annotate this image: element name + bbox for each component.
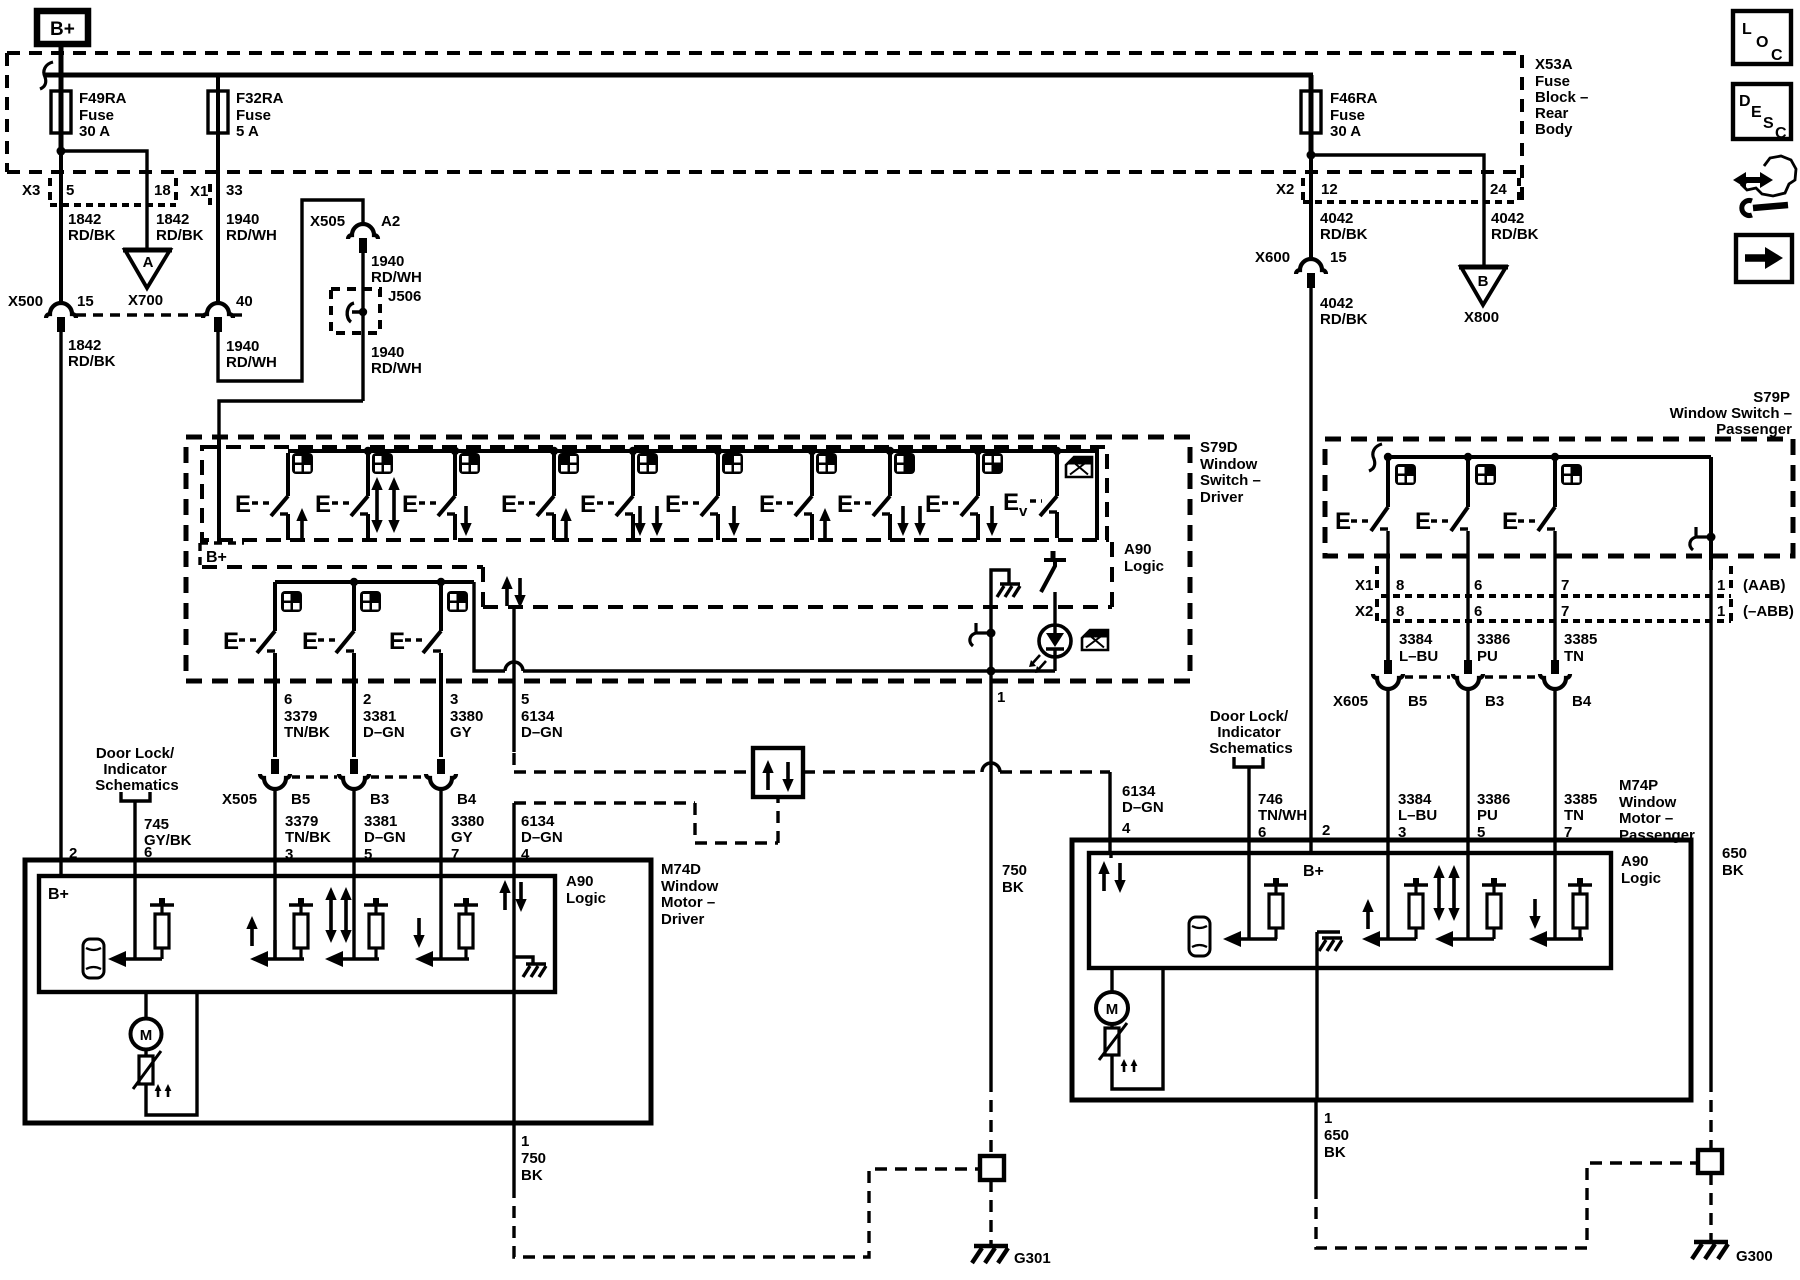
bus junction nodes passenger [1384, 453, 1559, 461]
B+ battery positive box [37, 11, 88, 44]
svg-text:7: 7 [1561, 603, 1569, 620]
wire label 4042 RD/BK pin24 [1491, 210, 1539, 243]
fuse F46RA 30A [1301, 75, 1378, 205]
lower switch cell pin2 [302, 582, 381, 757]
svg-text:O: O [1756, 34, 1768, 51]
svg-text:6: 6 [1474, 603, 1482, 620]
svg-text:M74P: M74P [1619, 777, 1658, 794]
svg-text:6: 6 [1474, 577, 1482, 594]
fuse F49RA 30A [51, 44, 127, 205]
svg-text:3386: 3386 [1477, 791, 1510, 808]
svg-text:Schematics: Schematics [95, 777, 178, 794]
wire label 3386 PU 5 [1477, 791, 1510, 841]
svg-text:650: 650 [1324, 1127, 1349, 1144]
S79D B+ terminal dashed tab [200, 543, 244, 568]
svg-text:X53A: X53A [1535, 56, 1573, 73]
ground return wire to pin1 [1315, 932, 1318, 1100]
svg-text:BK: BK [1722, 862, 1744, 879]
connector X505 B4 [426, 759, 477, 808]
connector X2 row [1276, 178, 1519, 202]
wire A2 down through J506 [361, 251, 364, 401]
svg-text:BK: BK [521, 1167, 543, 1184]
bus bar B+ inside fuse block [44, 73, 1313, 78]
connector X500 pin 15 [8, 293, 94, 332]
M74P window motor passenger outer box [1072, 840, 1691, 1100]
icon box LOC [1733, 11, 1791, 64]
svg-text:M74D: M74D [661, 861, 701, 878]
icon box forward arrow [1736, 235, 1792, 282]
M74D window motor driver outer box [25, 860, 651, 1123]
svg-text:5: 5 [521, 691, 529, 708]
M74D label [661, 861, 719, 928]
svg-text:2: 2 [363, 691, 371, 708]
svg-text:PU: PU [1477, 648, 1498, 665]
internal ground wire A90 [991, 570, 1020, 671]
wire label 3379 TN/BK 3 [285, 813, 331, 863]
continuation hook at bus origin [40, 62, 53, 89]
svg-text:F49RA: F49RA [79, 90, 127, 107]
svg-text:A: A [143, 254, 154, 271]
wire label 3381 D-GN 5 [364, 813, 406, 863]
svg-text:BK: BK [1002, 879, 1024, 896]
svg-text:8: 8 [1396, 577, 1404, 594]
lower switch cell pin3 [389, 582, 468, 757]
cell pin5 drive: left arrow and resistor [325, 898, 388, 967]
svg-text:1: 1 [1717, 577, 1725, 594]
svg-text:3384: 3384 [1398, 791, 1432, 808]
svg-text:Driver: Driver [661, 911, 705, 928]
dashed ground run switch 750 BK [989, 1080, 992, 1154]
svg-text:Window: Window [661, 878, 719, 895]
svg-text:RD/BK: RD/BK [1320, 226, 1368, 243]
svg-text:Fuse: Fuse [1330, 107, 1365, 124]
svg-text:650: 650 [1722, 845, 1747, 862]
switch cell 8 double down [837, 453, 926, 540]
S79P window switch passenger dashed box [1325, 439, 1793, 556]
door lock branch hook [970, 623, 996, 646]
svg-text:1940: 1940 [226, 338, 259, 355]
svg-text:4: 4 [1122, 820, 1131, 837]
svg-text:3: 3 [450, 691, 458, 708]
down arrow pin7 cell [413, 918, 424, 948]
X605 connector dashes [1405, 675, 1538, 678]
svg-text:BK: BK [1324, 1144, 1346, 1161]
connector X2 row passenger [1355, 599, 1794, 621]
svg-text:M: M [1106, 1001, 1119, 1018]
wire 650 BK passenger motor pin1 [1316, 1100, 1349, 1187]
dashed ground run passenger motor to G300 [1316, 1163, 1696, 1248]
svg-text:750: 750 [1002, 862, 1027, 879]
svg-text:TN: TN [1564, 807, 1584, 824]
LED window-lockout indicator [1029, 625, 1071, 673]
svg-text:X605: X605 [1333, 693, 1368, 710]
wire passes rows pin8 [1386, 556, 1389, 660]
svg-text:X505: X505 [310, 213, 345, 230]
cell pin3 drive: left arrow and resistor [250, 898, 313, 967]
svg-text:TN/BK: TN/BK [284, 724, 330, 741]
svg-text:RD/WH: RD/WH [226, 227, 277, 244]
svg-text:A2: A2 [381, 213, 400, 230]
internal ground branch driver motor [514, 957, 546, 977]
svg-text:C: C [1775, 125, 1787, 142]
double arrows pin5 cell [325, 887, 351, 943]
up down arrows pin4 cell [499, 880, 526, 912]
svg-text:F32RA: F32RA [236, 90, 284, 107]
S79P label [1670, 389, 1793, 438]
up down signal arrows pin5 [501, 576, 525, 608]
splice symbol J506 [347, 303, 367, 322]
car icon driver motor [83, 939, 104, 978]
svg-text:33: 33 [226, 182, 243, 199]
connector X2 bottom dotted [1381, 619, 1731, 623]
svg-text:X505: X505 [222, 791, 257, 808]
svg-text:Logic: Logic [1124, 558, 1164, 575]
connector X600 pin 15 [1255, 249, 1347, 288]
wire 4042 RD/BK X2-12 to X600 [1309, 204, 1313, 259]
wire label 6134 D-GN 4 passenger [1122, 783, 1164, 837]
svg-text:GY: GY [450, 724, 472, 741]
svg-text:A90: A90 [1621, 853, 1649, 870]
internal switch contact with bar [1041, 551, 1066, 592]
S79D label [1200, 439, 1261, 506]
icon box DESC [1733, 84, 1791, 142]
icon double arrow with outline [1733, 156, 1796, 196]
thermistor driver motor [133, 1049, 171, 1097]
svg-text:Logic: Logic [566, 890, 606, 907]
svg-text:6134: 6134 [521, 813, 555, 830]
svg-text:TN: TN [1564, 648, 1584, 665]
svg-text:1: 1 [1717, 603, 1725, 620]
ground branch hook passenger switch [1690, 527, 1716, 550]
switch cell 7 up [759, 453, 837, 540]
thermistor passenger motor [1099, 1023, 1137, 1072]
svg-text:J506: J506 [388, 288, 421, 305]
svg-text:1940: 1940 [371, 344, 404, 361]
svg-text:L–BU: L–BU [1399, 648, 1438, 665]
svg-text:RD/WH: RD/WH [226, 354, 277, 371]
dashed wire to ground G301 [989, 1180, 992, 1244]
svg-text:5 A: 5 A [236, 123, 259, 140]
svg-text:PU: PU [1477, 807, 1498, 824]
svg-text:B+: B+ [1303, 863, 1324, 880]
connector X505 B3 [339, 759, 389, 808]
svg-text:A90: A90 [566, 873, 594, 890]
A90 Logic label driver switch [1124, 541, 1164, 575]
svg-text:3379: 3379 [284, 708, 317, 725]
up arrow pin3 cell [246, 916, 257, 946]
svg-text:TN/BK: TN/BK [285, 829, 331, 846]
ground junction block G300 [1698, 1150, 1722, 1173]
svg-text:X600: X600 [1255, 249, 1290, 266]
wire 750 BK driver motor pin1 [514, 1123, 546, 1186]
wire 745 GY/BK from door lock [133, 801, 136, 959]
wire label 3384 L-BU 3 [1398, 791, 1437, 841]
svg-text:X2: X2 [1276, 181, 1294, 198]
X53A fuse block dashed outline [7, 53, 1522, 200]
svg-text:30 A: 30 A [79, 123, 110, 140]
svg-text:Fuse: Fuse [236, 107, 271, 124]
wire 1842 RD/BK long run to M74D pin2 [59, 330, 62, 876]
svg-text:Driver: Driver [1200, 489, 1244, 506]
wire 650 BK passenger switch pin1 [1711, 570, 1747, 1080]
svg-text:(AAB): (AAB) [1743, 577, 1786, 594]
icon wrench [1742, 200, 1788, 215]
door lock indicator schematics label left [95, 745, 178, 794]
motor M passenger [1096, 968, 1128, 1024]
up arrow pin3 cell passenger [1362, 899, 1373, 929]
A90 Logic label passenger motor [1621, 853, 1661, 887]
connector X505 pin A2 [310, 213, 400, 253]
svg-text:X500: X500 [8, 293, 43, 310]
svg-text:Door Lock/: Door Lock/ [96, 745, 175, 762]
fuse F32RA 5A [208, 75, 284, 205]
svg-text:L–BU: L–BU [1398, 807, 1437, 824]
wire label 6134 D-GN 4 driver [521, 813, 563, 863]
wire 6134 D-GN from logic [512, 608, 515, 752]
svg-text:3381: 3381 [363, 708, 396, 725]
svg-text:3380: 3380 [450, 708, 483, 725]
lower switch cell pin6 [223, 582, 302, 757]
svg-text:Window: Window [1200, 456, 1258, 473]
svg-text:RD/BK: RD/BK [68, 353, 116, 370]
dashed link under direction box [514, 797, 778, 843]
M74P label [1619, 777, 1695, 844]
internal ground passenger motor [1317, 932, 1342, 951]
svg-text:745: 745 [144, 816, 169, 833]
svg-text:Fuse: Fuse [79, 107, 114, 124]
svg-text:30 A: 30 A [1330, 123, 1361, 140]
wire 1842 RD/BK X3-5 to X500 [59, 204, 63, 303]
svg-text:D: D [1739, 93, 1751, 110]
connector X605 B4 [1540, 660, 1592, 710]
passenger switch cell B5 [1335, 457, 1416, 660]
switch cell 10 express window [1003, 453, 1092, 538]
svg-text:B+: B+ [50, 19, 75, 40]
wire label 3385 TN 7 [1564, 791, 1597, 841]
ground G300 [1692, 1242, 1773, 1265]
svg-text:D–GN: D–GN [364, 829, 406, 846]
svg-text:G300: G300 [1736, 1248, 1773, 1265]
svg-text:X1: X1 [190, 183, 208, 200]
wire 3380 to motor pin7 [439, 789, 442, 959]
dashed wire to ground G300 [1709, 1173, 1712, 1240]
wire feed into S79D B+ terminal [219, 401, 363, 543]
M74P A90 logic inner box [1089, 853, 1611, 968]
M74D A90 logic inner box [39, 876, 555, 992]
right drop wire 650 BK source [1709, 457, 1713, 570]
wire 746 TN/WH from door lock [1247, 767, 1250, 939]
motor M driver [131, 992, 162, 1050]
connector X605 B5 [1333, 660, 1427, 710]
wire label 3385 TN [1564, 631, 1597, 665]
svg-text:B4: B4 [1572, 693, 1592, 710]
twisted pair link dashed to passenger [514, 753, 1110, 772]
wire label 3384 L-BU [1399, 631, 1438, 665]
switch cell 4 up [501, 453, 579, 540]
svg-text:S79P: S79P [1753, 389, 1790, 406]
ground G301 [972, 1246, 1051, 1267]
svg-text:746: 746 [1258, 791, 1283, 808]
svg-text:3381: 3381 [364, 813, 397, 830]
wire 3385 TN to motor pin7 [1553, 689, 1556, 939]
svg-text:3386: 3386 [1477, 631, 1510, 648]
wire 1940 RD/WH from pin40 looping up to X505 A2 [218, 200, 363, 381]
cell pin7 drive passenger: left arrow and resistor [1529, 878, 1592, 947]
svg-text:3385: 3385 [1564, 791, 1597, 808]
svg-text:Fuse: Fuse [1535, 73, 1570, 90]
switch cell 5 double down [580, 453, 663, 540]
wire LED to internal ground run [1053, 657, 1056, 671]
svg-text:C: C [1771, 47, 1783, 64]
svg-text:S: S [1763, 115, 1774, 132]
svg-text:B3: B3 [1485, 693, 1504, 710]
svg-text:8: 8 [1396, 603, 1404, 620]
wire 3381 to motor pin5 [352, 789, 355, 959]
svg-text:X700: X700 [128, 292, 163, 309]
svg-text:40: 40 [236, 293, 253, 310]
svg-text:1940: 1940 [226, 211, 259, 228]
wire label 1842 RD/BK pin18 [156, 211, 204, 244]
wire label 1842 RD/BK pin5 [68, 211, 116, 244]
driver lower bus [275, 580, 474, 584]
svg-text:Window Switch –: Window Switch – [1670, 405, 1792, 422]
connector X1 pin 40 [203, 293, 253, 332]
svg-text:L: L [1742, 21, 1752, 38]
svg-text:6: 6 [284, 691, 292, 708]
svg-text:24: 24 [1490, 181, 1507, 198]
svg-text:1: 1 [997, 689, 1005, 706]
wire 3379 to motor pin3 [273, 789, 276, 959]
wire 750 BK from switch pin 1 [991, 671, 1027, 1080]
wire label 1842 RD/BK below X500 [68, 337, 116, 370]
lower bus junction nodes [350, 578, 445, 586]
svg-text:RD/WH: RD/WH [371, 269, 422, 286]
svg-text:M: M [140, 1027, 153, 1044]
wire label 745 GY/BK 6 [144, 816, 192, 861]
wire contact to LED [1053, 592, 1056, 626]
switch cell 1 left front up [235, 453, 313, 540]
wire label 3380 GY 7 [451, 813, 484, 863]
cell pin5 drive passenger: left arrow and resistor [1435, 878, 1506, 947]
connector X1 X2 separator dotted [1381, 594, 1731, 598]
svg-text:Schematics: Schematics [1209, 740, 1292, 757]
svg-text:Motor –: Motor – [1619, 810, 1673, 827]
cell pin6 drive: left arrow and resistor [108, 898, 174, 967]
svg-text:Door Lock/: Door Lock/ [1210, 708, 1289, 725]
wire B+ feed end [217, 437, 221, 542]
bus junction nodes [364, 447, 1061, 455]
svg-text:Indicator: Indicator [103, 761, 167, 778]
svg-text:RD/BK: RD/BK [1491, 226, 1539, 243]
svg-text:Logic: Logic [1621, 870, 1661, 887]
svg-text:B4: B4 [457, 791, 477, 808]
off-page triangle A X700 [123, 250, 172, 309]
door lock indicator schematics label right [1209, 708, 1292, 757]
internal horizontal run to LED [474, 582, 1055, 671]
svg-text:RD/WH: RD/WH [371, 360, 422, 377]
switch cell 6 down [665, 453, 743, 540]
up down direction box [753, 748, 803, 797]
svg-text:D–GN: D–GN [363, 724, 405, 741]
dashed ground run driver motor to G301 [514, 1169, 978, 1257]
S79D internal bus [288, 451, 1097, 540]
svg-text:2: 2 [1322, 822, 1330, 839]
svg-text:Body: Body [1535, 121, 1573, 138]
svg-text:Switch –: Switch – [1200, 472, 1261, 489]
wire branch to X2 pin 24 and triangle B [1311, 155, 1484, 267]
ground junction block G301 [980, 1156, 1004, 1180]
svg-text:3379: 3379 [285, 813, 318, 830]
wire label 1940 RD/WH above J506 [371, 253, 422, 286]
connector X1 row [190, 182, 243, 205]
junction node fuse F49RA output [57, 147, 66, 156]
wire pin4 through to pin1 [512, 876, 515, 1123]
wire B+ feed down to fuse F49RA [59, 44, 64, 92]
svg-text:Window: Window [1619, 794, 1677, 811]
pin label 6 3379 TN/BK [284, 691, 330, 741]
A90 Logic label driver motor [566, 873, 606, 907]
svg-text:B5: B5 [1408, 693, 1427, 710]
svg-text:B3: B3 [370, 791, 389, 808]
svg-text:Rear: Rear [1535, 105, 1569, 122]
svg-text:Block –: Block – [1535, 89, 1588, 106]
svg-text:6134: 6134 [521, 708, 555, 725]
connector X505 B5 [222, 759, 310, 808]
svg-text:B: B [1478, 273, 1489, 290]
svg-text:B5: B5 [291, 791, 310, 808]
motor return loop driver [146, 992, 197, 1115]
junction node pin1 ground [987, 667, 996, 676]
svg-text:15: 15 [1330, 249, 1347, 266]
svg-text:3384: 3384 [1399, 631, 1433, 648]
door lock bracket left [121, 792, 150, 801]
wire label 1940 RD/WH pin33 [226, 211, 277, 244]
dashed ground run passenger switch 650 BK [1709, 1080, 1712, 1150]
svg-text:X800: X800 [1464, 309, 1499, 326]
wire label 1940 RD/WH below J506 [371, 344, 422, 377]
svg-text:7: 7 [1561, 577, 1569, 594]
svg-text:E: E [1003, 489, 1019, 516]
svg-text:Motor –: Motor – [661, 894, 715, 911]
connector X1 row passenger [1355, 566, 1786, 594]
svg-text:D–GN: D–GN [521, 724, 563, 741]
svg-text:3380: 3380 [451, 813, 484, 830]
passenger switch cell B4 [1502, 457, 1582, 660]
door lock bracket right [1234, 757, 1263, 767]
svg-text:1842: 1842 [68, 337, 101, 354]
svg-text:Passenger: Passenger [1619, 827, 1695, 844]
wire label 746 TN/WH 6 [1258, 791, 1307, 841]
wire 3386 PU to motor pin5 [1466, 689, 1469, 939]
svg-text:1842: 1842 [68, 211, 101, 228]
svg-text:18: 18 [154, 182, 171, 199]
up down arrows pin4 passenger [1098, 861, 1125, 893]
svg-text:D–GN: D–GN [521, 829, 563, 846]
svg-text:750: 750 [521, 1150, 546, 1167]
svg-text:X1: X1 [1355, 577, 1373, 594]
double arrows pin5 cell passenger [1433, 865, 1459, 921]
wire 4042 RD/BK long run to M74P pin2 [1309, 286, 1312, 853]
wire label 4042 RD/BK pin12 [1320, 210, 1368, 243]
svg-text:6134: 6134 [1122, 783, 1156, 800]
switch cell 2 auto up/down [315, 453, 400, 540]
svg-text:B+: B+ [206, 549, 227, 566]
pin label 5 6134 D-GN [521, 691, 563, 741]
svg-text:5: 5 [66, 182, 74, 199]
splice J506 dashed box [331, 288, 421, 333]
wire label 3386 PU [1477, 631, 1510, 665]
wire 6134 D-GN to passenger motor pin4 [1108, 772, 1111, 853]
